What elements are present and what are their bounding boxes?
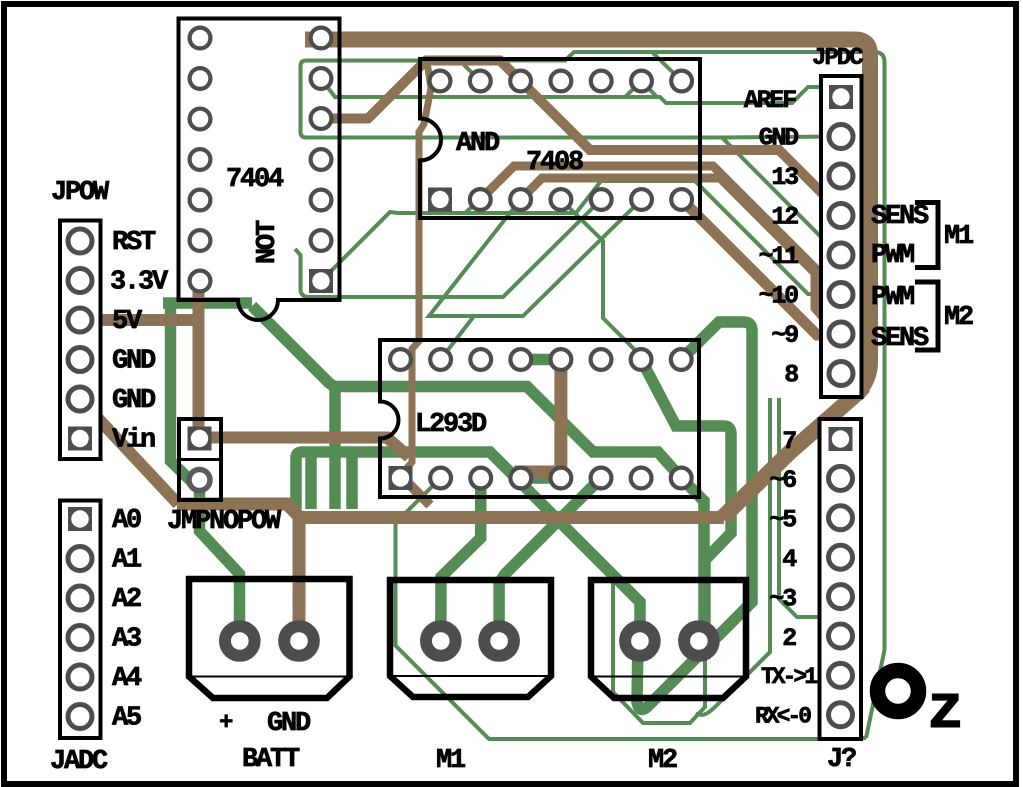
pin L293D B6	[591, 468, 612, 489]
pin BATT +	[225, 626, 255, 656]
wire: 7404 square pad staple	[295, 249, 309, 297]
pin L293D B5	[551, 468, 572, 489]
pin 7408 B3	[510, 189, 531, 210]
pin 8	[829, 362, 853, 386]
svg-text:GND: GND	[112, 386, 156, 416]
svg-text:~11: ~11	[759, 242, 799, 271]
wire: bar between L293D T4 and T5	[521, 354, 561, 366]
pin 7408 T2	[470, 71, 491, 92]
svg-text:13: 13	[771, 163, 798, 192]
terminal BATT	[189, 579, 350, 698]
svg-text:5V: 5V	[112, 307, 143, 337]
pin A2	[68, 586, 92, 610]
wire: 7404 staple bottom to JPDC GND and branch to ~11	[306, 137, 841, 138]
svg-text:NOT: NOT	[253, 220, 283, 264]
wire: JPDC area down to J? pad 2	[779, 398, 841, 637]
pin A3	[68, 626, 92, 650]
pin ~3	[829, 585, 853, 609]
svg-text:z: z	[927, 675, 964, 746]
pin Vin	[68, 427, 92, 451]
wire: JPDC area down to J? TX pad	[697, 398, 770, 715]
svg-text:7408: 7408	[526, 148, 583, 178]
pin 7404 R2	[311, 68, 332, 89]
IC 7408 body	[420, 59, 700, 218]
wire: L293D pin1 stub down to long horizontal	[404, 479, 430, 505]
wire: stub legs down to brown junction	[305, 452, 317, 509]
svg-text:A0: A0	[112, 506, 141, 536]
pin L293D T6	[591, 349, 612, 370]
svg-text:L293D: L293D	[415, 410, 487, 440]
wire: JMPNOPOW square pad horizontal right, elbow into L293D vertical	[200, 438, 410, 458]
wire: 5V to junction	[80, 314, 199, 326]
svg-text:~5: ~5	[769, 506, 796, 535]
svg-text:M1: M1	[436, 746, 466, 776]
wire: right elbow staircase down to brown junction	[329, 385, 341, 509]
svg-text:4: 4	[782, 545, 797, 574]
pin 7404 L2	[190, 68, 211, 89]
pin RST	[68, 229, 92, 253]
wire: L293D T6 around right side down to M2 right pad	[641, 360, 731, 626]
svg-text:SENS: SENS	[871, 202, 929, 232]
wire: 7408 B4 down to L293D T7	[561, 200, 641, 360]
pin 12	[829, 204, 853, 228]
pin A5	[68, 705, 92, 729]
pin L293D B1	[389, 466, 413, 490]
pin 7408 B2	[470, 189, 491, 210]
wire: branch dip to 7408 pad 2 top	[460, 61, 480, 81]
wire: L293D B5 down to M1 right pad	[499, 478, 601, 641]
pin M1 a	[426, 626, 456, 656]
svg-text:12: 12	[771, 203, 798, 232]
svg-text:A5: A5	[112, 704, 141, 734]
svg-text:~3: ~3	[769, 585, 796, 614]
pin JMP1	[188, 427, 212, 451]
pin 7408 B5	[591, 189, 612, 210]
pin ~10	[829, 283, 853, 307]
svg-text:GND: GND	[759, 124, 800, 153]
svg-text:PWM: PWM	[871, 283, 914, 313]
pin 7404 L4	[190, 149, 211, 170]
svg-text:A2: A2	[112, 585, 141, 615]
pin ~11	[829, 243, 853, 267]
IC 7404 body	[179, 19, 340, 321]
pin 7408 B4	[551, 189, 572, 210]
header J?	[820, 419, 862, 739]
pin L293D T1	[390, 349, 411, 370]
svg-text:~10: ~10	[759, 282, 799, 311]
pin 7404 R6	[311, 230, 332, 251]
pin 7408 T1	[430, 71, 451, 92]
jumper JMPNOPOW	[179, 419, 221, 500]
pin ~9	[829, 322, 853, 346]
pin 7408 B6	[631, 189, 652, 210]
pin 7404 L7	[190, 271, 211, 292]
pin M2 a	[625, 626, 655, 656]
pin L293D T8	[671, 349, 692, 370]
wire: jog into pad ~11 from right	[841, 240, 856, 255]
wire: branch down to L293D T2	[441, 316, 474, 360]
mounting hole z	[878, 671, 919, 712]
pin L293D B2	[430, 468, 451, 489]
bracket M1	[915, 203, 938, 268]
pin 7404 R3	[311, 108, 332, 129]
wire: branch dip to 7408 pad 7 top	[652, 52, 682, 81]
pin L293D T3	[470, 349, 491, 370]
pin TX1	[829, 663, 853, 687]
wire: branch dip up into 7408 B2	[465, 200, 480, 214]
svg-text:GND: GND	[267, 709, 311, 739]
pin A4	[68, 665, 92, 689]
wire: 7408 B3 up over and down to JPDC ~10	[521, 178, 815, 273]
svg-text:GND: GND	[112, 347, 156, 377]
wire: 7408 B3 down to junction, up to B6	[429, 200, 642, 317]
wire: branch down to BATT GND pad	[293, 517, 306, 641]
pin GND	[68, 348, 92, 372]
pin 7404 R4	[311, 149, 332, 170]
pin 7408 B1	[428, 188, 452, 212]
terminal M2	[591, 580, 746, 698]
wire: border net from 7404 staple along top, right edge, bottom	[301, 61, 312, 138]
wire: L293D B3 down to M1 left pad	[441, 478, 481, 641]
terminal M1	[390, 580, 551, 697]
pin RX0	[829, 703, 853, 727]
svg-text:8: 8	[784, 361, 798, 390]
pin 7408 T4	[551, 71, 572, 92]
pin L293D B7	[631, 468, 652, 489]
svg-text:3.3V: 3.3V	[110, 268, 169, 298]
svg-text:JPOW: JPOW	[51, 178, 110, 208]
wire: 7408 sub-band with diagonals: 7404 R3 up and over to JPDC 12	[321, 61, 841, 216]
pin GND2	[68, 387, 92, 411]
pin A1	[68, 547, 92, 571]
pin L293D T7	[631, 349, 652, 370]
pin L293D B3	[470, 468, 491, 489]
bracket M2	[915, 282, 938, 350]
pin 7408 T6	[631, 71, 652, 92]
wire: L293D upper Z through B8 down to M2 right pad	[252, 306, 704, 641]
pin JMP2	[189, 470, 210, 491]
wire: top thin green under band to right border	[306, 52, 885, 738]
pin M1 b	[484, 626, 514, 656]
svg-text:A3: A3	[112, 625, 141, 655]
pin ~6	[829, 466, 853, 490]
wire: bar between L293D B4 and B5	[521, 472, 561, 484]
svg-text:J?: J?	[827, 745, 856, 775]
svg-text:AREF: AREF	[744, 86, 796, 115]
wire: 7408 B2 up over and down to JPDC ~9	[480, 166, 841, 334]
wire: 7404 L7 down through junction to JMPNOPOW square pad	[193, 283, 205, 439]
pin L293D B8	[671, 468, 692, 489]
svg-text:M2: M2	[944, 303, 973, 333]
pin GND	[829, 125, 853, 149]
svg-text:M2: M2	[648, 746, 677, 776]
wire: L293D T8 around outer right side down through M2 loop to left pad	[637, 322, 752, 710]
wire: bottom long horizontal to J? corner	[396, 478, 867, 739]
pin 7404 R7	[309, 269, 333, 293]
svg-text:7404: 7404	[226, 165, 284, 195]
wire: thin loop under M2	[613, 581, 705, 723]
svg-text:~9: ~9	[771, 321, 798, 350]
pin 7408 T7	[671, 71, 692, 92]
svg-text:A4: A4	[112, 664, 142, 694]
svg-text:JPDC: JPDC	[812, 45, 863, 72]
pin 7404 R1	[311, 28, 332, 49]
wire: 7408 T6 stubs to AREF line	[625, 81, 642, 97]
pin 7404 L1	[190, 28, 211, 49]
wire: JMPNOPOW round pad down to BATT plus pad	[200, 480, 240, 641]
pin AREF	[829, 85, 853, 109]
svg-text:A1: A1	[112, 546, 142, 576]
pin 7404 R5	[311, 190, 332, 211]
pin ~5	[829, 506, 853, 530]
svg-text:Vin: Vin	[112, 426, 155, 456]
svg-text:JMPNOPOW: JMPNOPOW	[167, 507, 282, 537]
header JADC	[60, 501, 101, 739]
pin 7404 L3	[190, 109, 211, 130]
wire: staple bottom horizontal to L293D riser to 7408 pad B5	[303, 200, 601, 298]
pin 7	[829, 427, 853, 451]
pin BATT GND	[284, 626, 314, 656]
pin L293D B4	[510, 468, 531, 489]
svg-text:RST: RST	[112, 228, 156, 258]
svg-text:PWM: PWM	[871, 241, 914, 271]
header JPOW	[60, 221, 101, 460]
svg-text:TX->1: TX->1	[761, 664, 817, 690]
svg-text:M1: M1	[944, 222, 974, 252]
pin 7404 L5	[190, 190, 211, 211]
pin L293D T4	[510, 349, 531, 370]
svg-text:JADC: JADC	[50, 747, 108, 777]
pin 5V	[68, 308, 92, 332]
wire: 7408 B7 diagonal down to JPDC ~9	[682, 200, 830, 336]
pin 7408 T3	[510, 71, 531, 92]
wire: long brown horizontal with jog	[177, 504, 724, 518]
wire: bar under 7404 with elbows	[163, 297, 252, 309]
svg-text:+: +	[219, 710, 233, 737]
wire: 7404 pad R2 to JPDC AREF	[321, 79, 838, 104]
header JPDC	[821, 76, 862, 397]
wire: brown L from L293D T5 to B4	[521, 360, 561, 479]
svg-text:BATT: BATT	[242, 745, 300, 775]
wire: JPDC pad 8 stub to band	[841, 374, 866, 397]
pin 4	[829, 545, 853, 569]
wire: JPOW GND2 diagonal	[86, 406, 178, 505]
pin A0	[68, 507, 92, 531]
svg-text:AND: AND	[456, 129, 500, 159]
pin 3.3V	[68, 269, 92, 293]
wire: left elbow down to JMPNOPOW round pad	[171, 303, 200, 480]
wire: thin vertical from 7408 top bar down to L293D pin1	[401, 62, 432, 478]
svg-text:7: 7	[782, 427, 796, 456]
pin M2 b	[684, 626, 714, 656]
pin 2	[829, 624, 853, 648]
pin 7408 T5	[591, 71, 612, 92]
pin 13	[829, 164, 853, 188]
pin L293D T2	[430, 349, 451, 370]
svg-text:RX<-0: RX<-0	[755, 704, 811, 730]
svg-text:2: 2	[782, 624, 796, 653]
pin L293D T5	[551, 349, 572, 370]
pin 7404 L6	[190, 230, 211, 251]
IC L293D body	[380, 340, 699, 497]
wire: 7404 square pad diagonal up to 7408 pad B2	[328, 181, 841, 295]
wire: branch diagonal to JPDC pad ~11	[722, 138, 841, 256]
svg-text:~6: ~6	[769, 466, 796, 495]
pin 7408 B7	[671, 189, 692, 210]
wire: L293D lower horizontal diagonal to M2 left pad	[296, 452, 640, 641]
wire: brown top band from 7404 R1 around right of JPDC down to long horizontal	[305, 40, 870, 519]
